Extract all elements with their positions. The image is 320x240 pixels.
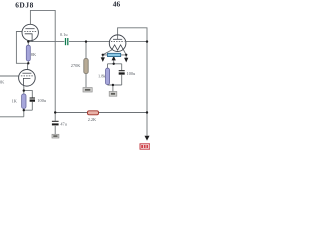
svg-text:100u: 100u [127,71,136,76]
svg-text:6DJ8: 6DJ8 [15,1,34,10]
svg-text:100u: 100u [37,98,46,103]
svg-text:0.1u: 0.1u [60,32,68,37]
svg-text:8K: 8K [31,52,37,57]
svg-text:270K: 270K [71,63,81,68]
svg-text:2.2K: 2.2K [88,117,97,122]
svg-text:46: 46 [113,0,121,9]
svg-text:47u: 47u [60,122,67,127]
svg-text:1.8k: 1.8k [98,74,106,79]
svg-text:1K: 1K [12,99,18,104]
